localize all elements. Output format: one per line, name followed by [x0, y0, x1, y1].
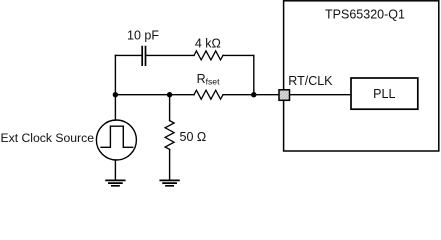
node A junction dot — [113, 92, 118, 97]
node B junction dot — [167, 92, 172, 97]
wire clock source to ground — [114, 160, 116, 180]
wire Rfset right to pin — [223, 94, 279, 96]
wire vertical node A up to top branch — [114, 55, 116, 94]
wire resistor 4k to corner — [223, 54, 254, 56]
main wire node A to pin — [115, 94, 194, 96]
ground GND1 under clock source — [106, 180, 125, 185]
resistor R 4 kOhm zigzag — [194, 51, 223, 60]
wire capacitor to resistor 4k — [146, 54, 194, 56]
pin RT/CLK terminal square — [279, 90, 290, 101]
clock source circle V1 — [96, 120, 136, 160]
svg-text:Ext Clock Source: Ext Clock Source — [1, 131, 95, 145]
wire corner down to node C — [253, 55, 255, 94]
pulse waveform symbol — [101, 126, 133, 147]
svg-text:4 kΩ: 4 kΩ — [195, 37, 221, 51]
svg-text:PLL: PLL — [373, 87, 395, 101]
wire pin RT/CLK to PLL — [290, 94, 351, 96]
svg-text:10 pF: 10 pF — [127, 28, 159, 42]
svg-text:50 Ω: 50 Ω — [180, 130, 207, 144]
svg-text:TPS65320-Q1: TPS65320-Q1 — [325, 8, 405, 22]
wire top branch to capacitor — [115, 54, 141, 56]
resistor Rfset zigzag — [194, 90, 223, 99]
wire resistor 50 to ground — [169, 149, 171, 180]
capacitor C1 10 pF plates — [142, 47, 145, 66]
resistor R 50 Ohm zigzag vertical — [165, 121, 174, 150]
ground GND2 under 50 Ohm — [160, 180, 179, 185]
wire node B down to resistor 50 — [169, 95, 171, 121]
PLL block — [351, 78, 418, 109]
node C junction dot — [251, 92, 256, 97]
wire node A down to clock source — [114, 95, 116, 120]
IC block U1 TPS65320-Q1 — [284, 1, 439, 151]
svg-text:RT/CLK: RT/CLK — [288, 74, 333, 88]
